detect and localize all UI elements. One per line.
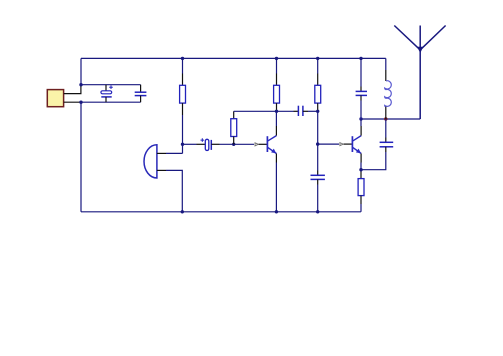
- wire top rail corner down to L1: [385, 58, 387, 70]
- antenna ANT1: [394, 26, 445, 120]
- node junction tank right (red): [384, 117, 387, 120]
- wire base net to C3: [183, 143, 197, 145]
- wire R4 line down: [317, 111, 319, 144]
- pin arrow Q2 base: [340, 143, 343, 146]
- wire R6 branch: [360, 170, 362, 172]
- node junction top rail R1: [181, 57, 184, 60]
- node junction top rail R3: [275, 57, 278, 60]
- resistor R2: [231, 111, 237, 144]
- node junction J1 bottom: [79, 101, 82, 104]
- wire tank node to Q2 collector: [360, 119, 362, 126]
- node junction Q1 emitter ground: [275, 210, 278, 213]
- transistor Q2: [352, 126, 361, 163]
- transistor Q1: [267, 126, 276, 163]
- capacitor C8: [380, 142, 394, 147]
- wire C5 to R4 line: [308, 110, 318, 112]
- capacitor C3 electrolytic: [201, 138, 212, 150]
- wire R1 branch: [182, 58, 184, 73]
- wire left rail lower segment: [80, 102, 82, 212]
- node junction J1 top: [79, 83, 82, 86]
- capacitor C7: [356, 91, 367, 95]
- wire Q2 emitter to junction: [360, 163, 362, 170]
- wire C8 branch: [385, 119, 387, 138]
- wire cap bus top: [81, 84, 141, 86]
- wire to C6: [317, 144, 319, 170]
- resistor R4: [315, 85, 321, 103]
- wire mic top terminal: [157, 152, 166, 154]
- capacitor C2: [135, 85, 147, 103]
- wire tank horizontal to antenna: [361, 118, 420, 120]
- wire J1 top pin: [64, 85, 81, 94]
- wire Q1 collector up: [275, 111, 277, 126]
- pin arrow Q1 base: [255, 143, 258, 146]
- wire cap bus bottom: [81, 101, 141, 103]
- inductor L1: [385, 81, 392, 107]
- node junction Q1 collector: [275, 110, 278, 113]
- node junction Q2 base net: [316, 142, 319, 145]
- wire bottom rail: [81, 211, 361, 213]
- node junction top rail C7: [359, 57, 362, 60]
- node junction Q2 emitter: [359, 168, 362, 171]
- node junction top rail R4: [316, 57, 319, 60]
- wire J1 bottom pin: [64, 101, 81, 103]
- wire mic bottom terminal: [157, 169, 166, 171]
- node junction R2 bottom: [232, 143, 235, 146]
- wire Q2 base: [318, 143, 339, 145]
- connector J1 (battery clip): [47, 90, 63, 107]
- wire R2 top to collector node: [234, 110, 277, 112]
- node junction mic ground: [181, 210, 184, 213]
- capacitor C1 electrolytic: [101, 85, 113, 103]
- resistor R1: [180, 85, 186, 103]
- wire R4 branch: [317, 58, 319, 73]
- wire top rail: [81, 57, 386, 59]
- wire C3 to R2 node: [220, 143, 255, 145]
- node junction base net: [181, 143, 184, 146]
- wire Q1 emitter down: [275, 163, 277, 212]
- wire Q1 base pin: [259, 143, 267, 145]
- resistor R6: [358, 179, 364, 196]
- resistor R3: [274, 85, 280, 103]
- node junction tank left: [359, 117, 362, 120]
- node junction C6 ground: [316, 210, 319, 213]
- wire R3 branch: [276, 58, 278, 73]
- wire collector node to C5: [277, 110, 294, 112]
- capacitor C6: [311, 175, 325, 179]
- wire left rail upper segment: [80, 58, 82, 84]
- wire C7 branch: [360, 58, 362, 86]
- capacitor C5: [298, 106, 303, 116]
- microphone MIC1: [144, 145, 157, 178]
- node junction R4 bottom: [316, 110, 319, 113]
